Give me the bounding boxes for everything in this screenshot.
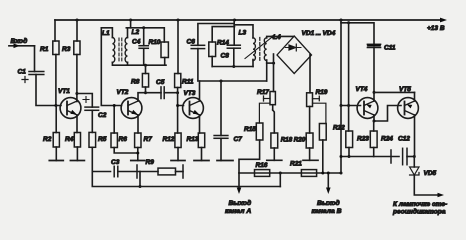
resistor R21 — [290, 161, 317, 177]
svg-text:С7: С7 — [234, 136, 243, 143]
node C8 line — [232, 65, 235, 68]
ground R20 — [303, 159, 318, 161]
wire VT5 collector — [414, 115, 416, 157]
label +13V — [427, 25, 445, 32]
wire R15 to out line — [239, 140, 260, 173]
node base-R12 — [176, 104, 179, 107]
wire v2 R23 feed — [348, 23, 350, 106]
svg-text:канал А: канал А — [225, 208, 251, 215]
svg-text:реоиндикатора: реоиндикатора — [392, 208, 446, 216]
wire L3 top — [234, 25, 253, 38]
wire R20 to ground — [309, 148, 311, 160]
capacitor C6 — [187, 39, 205, 49]
resistor R14 — [209, 40, 230, 57]
resistor R11 — [175, 74, 194, 88]
svg-text:С3: С3 — [111, 159, 120, 166]
wire C3 to R9 — [118, 171, 158, 173]
inductor L3 — [239, 30, 256, 61]
ground R6 R7 — [131, 160, 145, 162]
wire emitter rail — [374, 91, 415, 93]
terminal bar R9 — [182, 165, 184, 178]
wire output line A — [239, 172, 341, 174]
wire tank bottom node — [112, 62, 166, 65]
wire node line R14 — [212, 27, 234, 42]
wire bus drop — [139, 172, 141, 187]
wire R14 bottom — [211, 57, 213, 67]
wire C4 top — [143, 28, 145, 46]
ground R13 — [194, 160, 209, 162]
wire R7 bottom — [137, 148, 139, 161]
resistor R1 — [40, 41, 59, 55]
svg-text:VD1 ... VD4: VD1 ... VD4 — [302, 30, 336, 37]
label output B2 — [312, 208, 342, 215]
svg-text:R8: R8 — [131, 79, 140, 86]
capacitor C3 — [111, 159, 120, 177]
wire C8 bottom — [233, 48, 235, 66]
capacitor C12 — [398, 136, 410, 165]
label input Vhod — [11, 37, 28, 45]
wire L4 top to bridge — [267, 36, 293, 38]
wire R23 top — [348, 106, 350, 132]
transistor VT2 — [117, 89, 142, 118]
trimmer R17 — [257, 89, 275, 123]
node R8-C5 — [144, 91, 147, 94]
svg-text:R22: R22 — [333, 125, 345, 132]
wire C4 bottom — [143, 48, 145, 65]
transistor VT3 — [183, 90, 204, 118]
inductor L4 — [264, 34, 281, 61]
wire VT1 emitter to R4 — [76, 115, 78, 133]
wire C6 bottom to detector line — [197, 49, 199, 81]
trimmer R19 — [307, 89, 328, 124]
capacitor C5 — [156, 79, 165, 99]
wire node down to R12 — [177, 106, 179, 134]
svg-text:VT4: VT4 — [356, 86, 368, 93]
node emitter rail — [373, 91, 376, 94]
node R23 line — [348, 155, 351, 158]
wire C12 right — [407, 156, 414, 158]
label output A2 — [225, 208, 251, 215]
resistor R8 — [131, 74, 149, 88]
wire bottom bus — [92, 172, 280, 187]
wire R2 to ground — [55, 147, 57, 161]
wire C3 line left — [92, 171, 110, 173]
wire bus riser — [279, 173, 281, 187]
wire input to C1 — [34, 46, 36, 72]
wire C5 to R11 node — [164, 92, 177, 94]
transistor VT1 — [58, 88, 81, 118]
svg-text:С11: С11 — [384, 45, 396, 52]
wire rail drop x234 — [233, 20, 235, 45]
svg-text:R5: R5 — [98, 136, 107, 143]
ground C7 — [217, 160, 233, 162]
svg-text:С4: С4 — [132, 39, 141, 46]
capacitor C11 — [367, 44, 395, 51]
arrow output A — [237, 173, 242, 194]
resistor R24 — [370, 131, 393, 148]
svg-text:С5: С5 — [156, 79, 165, 86]
resistor R3 — [62, 41, 80, 55]
label output B1 — [317, 199, 340, 207]
resistor R2 — [43, 106, 59, 148]
svg-text:VT5: VT5 — [399, 86, 411, 93]
wire R6 bottom — [114, 148, 138, 154]
wire collector node to VT2 — [138, 93, 146, 101]
wire VT5 emitter up — [414, 92, 416, 101]
inductor L2 — [125, 29, 139, 62]
node base-R6 — [113, 104, 116, 107]
wire VT2 emitter to R7 — [137, 115, 139, 133]
svg-text:R17: R17 — [257, 89, 269, 96]
wire R17 to R18 — [273, 105, 275, 133]
node outB — [340, 172, 343, 175]
terminal bar C3-R9 — [136, 165, 138, 178]
svg-text:R15: R15 — [244, 126, 256, 133]
wire R18 to ground — [273, 148, 275, 160]
ground R4 — [70, 160, 84, 162]
svg-text:R24: R24 — [381, 136, 393, 143]
ground R2 — [49, 160, 63, 162]
wire input with arrow — [9, 44, 35, 49]
node R23 tap — [347, 104, 350, 107]
wire node to VT3 base — [178, 93, 184, 106]
wire tank top node — [126, 26, 164, 29]
transistor VT4 — [356, 86, 378, 118]
wire R3 to VT1 collector — [76, 55, 78, 102]
svg-text:R21: R21 — [290, 161, 302, 168]
wire lower node line — [212, 66, 253, 68]
node rail-C8 — [233, 19, 236, 22]
resistor R5 — [89, 132, 107, 147]
svg-text:Вход: Вход — [11, 37, 28, 45]
node detector-C7 — [220, 80, 223, 83]
svg-text:R13: R13 — [187, 136, 199, 143]
wire C11 branch — [341, 23, 374, 45]
node R24 tap — [373, 120, 376, 123]
wire bridge right to R19 — [309, 55, 311, 93]
wire R9 right — [176, 171, 184, 173]
ground R12 — [171, 160, 185, 162]
wire R22 bottom — [322, 140, 324, 173]
wire L4 bottom to detector line — [267, 60, 275, 81]
svg-text:R3: R3 — [62, 46, 71, 53]
wire rail to R3 — [76, 20, 78, 41]
wire VT3 collector — [199, 81, 201, 101]
resistor R15 — [244, 123, 263, 140]
resistor R18 — [271, 133, 293, 148]
wire +13V supply rail — [55, 18, 447, 23]
svg-text:канала В: канала В — [312, 208, 342, 215]
node R6-R7 — [136, 152, 139, 155]
wire VT4 collector to VT5 base — [374, 106, 401, 122]
wire rail to VT4 base — [340, 20, 361, 107]
transistor VT5 — [398, 86, 419, 118]
node rail-L2 — [129, 19, 132, 22]
resistor R22 — [319, 124, 345, 141]
core L3-L4 — [259, 38, 261, 61]
svg-text:R1: R1 — [40, 46, 49, 53]
resistor R16 — [255, 162, 270, 176]
terminal bar C12 — [390, 150, 392, 163]
ground R18 — [267, 159, 282, 161]
node rail-VT4 — [340, 19, 343, 22]
label lamp 2 — [392, 208, 446, 216]
svg-text:R18: R18 — [281, 137, 293, 144]
capacitor C1 — [18, 69, 44, 83]
wire R19 to R20 — [309, 107, 311, 134]
wire rail to L2 top — [128, 20, 131, 38]
wire collector to C2 — [77, 94, 92, 108]
core L1-L2 — [119, 38, 122, 63]
wire VT4 emitter up — [373, 92, 375, 101]
wire C12 line — [340, 155, 400, 158]
wire R24 bottom — [373, 148, 375, 157]
svg-text:Выход: Выход — [229, 199, 252, 207]
inductor L1 — [102, 30, 115, 62]
wire R10 bottom — [164, 58, 166, 66]
svg-text:L1: L1 — [102, 30, 110, 37]
wire R12 to ground — [177, 148, 179, 161]
wire R10 top — [163, 28, 165, 42]
node rail-R3 — [76, 19, 79, 22]
arrow variable coupling — [245, 34, 276, 58]
wire node to C5 — [146, 92, 162, 94]
svg-text:+13 В: +13 В — [427, 25, 445, 32]
svg-text:R11: R11 — [182, 79, 194, 86]
wire R24 top — [373, 121, 375, 131]
wire R13 to ground — [201, 148, 203, 161]
svg-text:VD5: VD5 — [424, 170, 437, 177]
resistor R12 — [163, 133, 182, 148]
node rail-R11 — [177, 19, 180, 22]
wire L3 bottom riser — [252, 60, 254, 67]
svg-text:R19: R19 — [316, 89, 328, 96]
arrow output B — [326, 172, 331, 195]
wire C2 to R5 — [91, 110, 93, 132]
svg-text:R16: R16 — [256, 162, 268, 169]
svg-text:R10: R10 — [149, 39, 161, 46]
capacitor C7 — [214, 136, 242, 144]
wire L1 top to VT2 base — [101, 28, 121, 106]
svg-text:VT2: VT2 — [117, 89, 129, 96]
svg-text:К лампочке сте-: К лампочке сте- — [393, 201, 447, 208]
node VD5 — [413, 155, 416, 158]
wire R4 to ground — [76, 147, 78, 161]
resistor R4 — [65, 133, 81, 148]
svg-text:R2: R2 — [43, 136, 52, 143]
resistor R10 — [149, 39, 169, 58]
svg-text:R7: R7 — [144, 136, 153, 143]
label lamp 1 — [393, 201, 447, 208]
node v2 top — [347, 21, 350, 24]
wire tank to R8 — [145, 65, 147, 73]
diode VD5 zener — [410, 157, 437, 178]
wire R23 bottom — [348, 148, 350, 157]
svg-text:R23: R23 — [357, 136, 369, 143]
wire VD5 to lamp — [414, 175, 444, 197]
svg-text:R20: R20 — [294, 137, 306, 144]
label output A1 — [229, 199, 252, 207]
resistor R9 — [146, 159, 176, 175]
capacitor C8 — [221, 45, 241, 59]
capacitor C2 — [83, 97, 107, 120]
resistor R13 — [187, 133, 205, 148]
svg-text:R4: R4 — [65, 136, 74, 143]
resistor R20 — [294, 133, 313, 148]
wire rail to R11 — [177, 20, 179, 74]
resistor R7 — [135, 133, 153, 148]
svg-text:С8: С8 — [221, 53, 230, 60]
wire detector line to C7 — [220, 81, 222, 136]
node out-bus — [279, 172, 282, 175]
svg-text:R6: R6 — [119, 136, 128, 143]
wire C7 to ground — [220, 138, 222, 160]
svg-text:R12: R12 — [163, 136, 175, 143]
svg-text:С2: С2 — [98, 112, 107, 119]
svg-text:С1: С1 — [18, 69, 27, 76]
wire R1 to base node — [55, 55, 57, 106]
svg-text:L3: L3 — [239, 30, 247, 37]
diode bridge VD1...VD4 — [277, 36, 312, 74]
wire node line C6 — [198, 24, 234, 46]
node tank-R8 — [144, 64, 147, 67]
capacitor C4 — [132, 39, 148, 49]
svg-text:С6: С6 — [187, 39, 196, 46]
wire detector line — [200, 80, 267, 82]
svg-text:VT3: VT3 — [184, 90, 196, 97]
wire rail to R1 — [54, 20, 56, 41]
svg-text:L2: L2 — [132, 29, 140, 36]
wire R5 down to C3 line — [91, 147, 93, 171]
resistor R6 — [111, 106, 127, 148]
wire v1 down — [340, 106, 342, 174]
wire R8 to collector node — [145, 87, 147, 93]
node R22-line — [321, 172, 324, 175]
svg-text:R9: R9 — [146, 159, 155, 166]
svg-text:Выход: Выход — [317, 199, 340, 207]
wire bridge left to R17 — [273, 54, 275, 92]
node R1-base — [54, 104, 57, 107]
node C5-R11 — [176, 91, 179, 94]
node collector-C2 — [75, 92, 78, 95]
wire R11 to node — [177, 88, 179, 93]
label VD1...VD4 — [302, 30, 336, 37]
wire C11 to emitter rail — [373, 48, 375, 93]
node bus-C3 — [139, 185, 142, 188]
wire VT3 emitter to R13 — [199, 115, 201, 133]
svg-text:С12: С12 — [398, 136, 410, 143]
svg-text:VT1: VT1 — [58, 88, 70, 95]
wire C1 to VT1 base — [36, 75, 61, 106]
resistor R23 — [346, 131, 370, 148]
